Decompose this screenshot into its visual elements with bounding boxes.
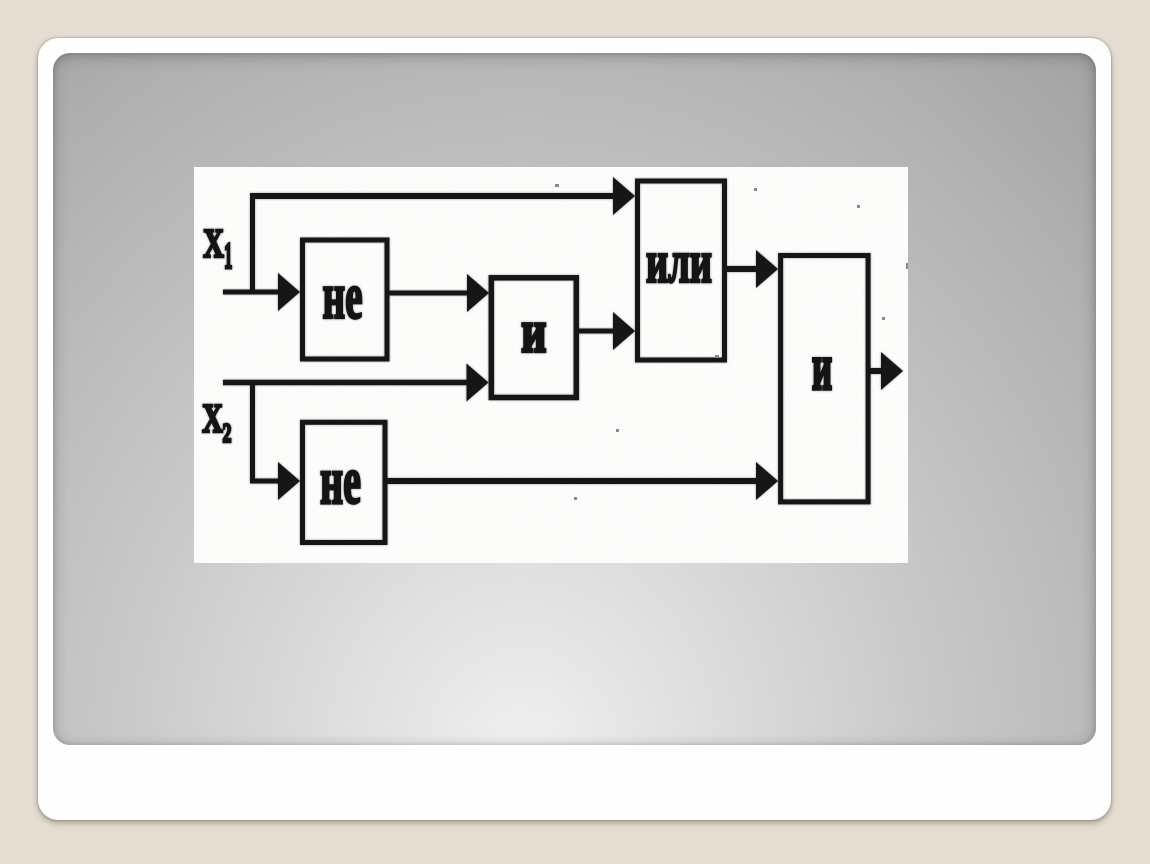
label NOT2 "не" [320,444,361,519]
arrowhead into AND1 upper input [467,274,489,312]
svg-text:X: X [203,221,224,266]
wire vertical branch X1 [250,194,255,293]
wire NOT2 output to AND2 [387,478,758,484]
svg-text:X: X [202,396,223,441]
gate AND1 box [491,278,576,398]
arrowhead into OR lower input [613,312,635,350]
label AND1 "и" [521,299,546,365]
label AND2 "и" [812,332,832,405]
wire NOT2 input [250,479,280,484]
gate NOT1 box [303,240,388,359]
label X1 [203,221,224,266]
arrowhead circuit output [881,352,903,390]
wire AND2 output [870,368,885,374]
arrowhead into OR top input [613,177,635,215]
label NOT1 "не" [322,260,362,333]
label OR "или" [646,229,712,296]
scan grain texture [194,167,908,563]
wire AND1 output [576,329,617,334]
wire X2 input [223,380,468,386]
wire OR output [727,266,758,272]
scan blur underlay [202,177,903,543]
scan specks [555,184,908,500]
svg-text:и: и [812,332,832,405]
gray gradient panel [53,53,1096,745]
svg-text:не: не [320,444,361,519]
svg-text:не: не [322,260,362,333]
wire X1 input [223,290,280,295]
arrowhead into AND2 lower input [756,462,778,500]
label X2 [202,396,223,441]
scanned circuit image [194,167,908,563]
wire vertical branch X2 [250,380,255,481]
svg-text:и: и [521,299,546,365]
gate NOT2 box [303,422,386,542]
arrowhead into NOT2 [278,462,300,500]
arrowhead into AND2 upper input [756,250,778,288]
arrowhead into NOT1 [278,273,300,311]
svg-text:2: 2 [223,418,232,447]
svg-text:1: 1 [224,236,232,277]
gate AND2 box [781,256,869,502]
gate OR box [638,181,725,360]
svg-text:или: или [646,229,712,296]
wire top (X1 branch to OR) [250,193,617,199]
wire NOT1 output [389,291,468,296]
arrowhead into AND1 lower input [467,364,489,402]
